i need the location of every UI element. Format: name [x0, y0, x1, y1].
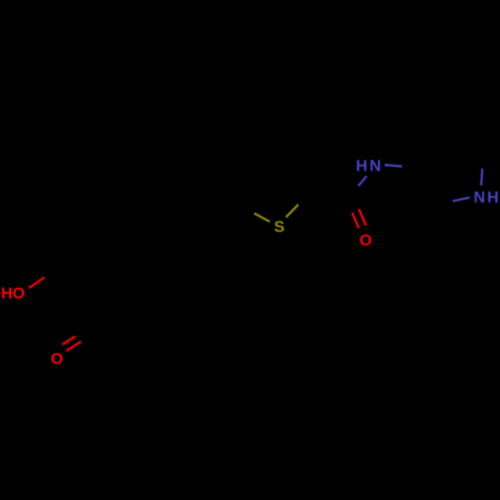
wire C5ring-N bond [453, 198, 470, 202]
svg-text:S: S [274, 219, 285, 236]
svg-text:O: O [51, 351, 63, 368]
wire amide C=O double bond line 2 [359, 209, 366, 226]
wire N-C(=O) bond [358, 176, 366, 186]
svg-text:HN: HN [356, 158, 383, 175]
wire S-C2 bond [286, 205, 298, 218]
wire ketone C=O double bond line 1 [62, 336, 75, 344]
wire amide C=O double bond line 1 [352, 213, 359, 229]
wire C2ring-N bond [481, 169, 482, 186]
svg-text:O: O [360, 232, 372, 249]
svg-text:NH: NH [474, 190, 500, 207]
wire C5-S bond [254, 213, 270, 221]
wire O-C bond from HO [29, 277, 45, 288]
wire N-CH2 bond [385, 165, 402, 167]
wire ketone C=O double bond line 2 [66, 341, 81, 351]
svg-text:HO: HO [1, 285, 25, 302]
